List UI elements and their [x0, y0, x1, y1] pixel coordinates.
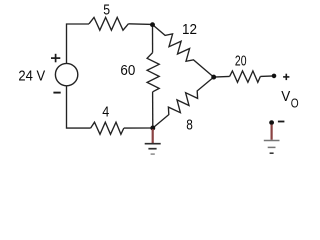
wire left rail bottom (source bottom to bottom-left corner)	[67, 86, 91, 128]
voltage source V1 circle	[55, 63, 77, 85]
svg-text:V: V	[281, 88, 291, 105]
ground right bar 3	[270, 152, 274, 154]
wire node A down to resistor 60	[152, 25, 154, 53]
ground left stem (maroon)	[152, 129, 154, 143]
svg-text:8: 8	[186, 118, 193, 134]
output plus sign	[283, 74, 289, 80]
output minus sign	[278, 121, 285, 123]
resistor 20	[230, 71, 261, 82]
wire node C to resistor 20	[214, 75, 230, 78]
resistor 8 (diagonal, node B to node C)	[153, 77, 214, 128]
wire top (resistor 5 to node A)	[128, 23, 152, 26]
resistor 60	[147, 53, 159, 92]
svg-text:O: O	[291, 96, 299, 111]
source minus sign	[53, 92, 60, 94]
ground right bar 2	[268, 146, 276, 148]
ground left bar 3	[151, 153, 155, 155]
svg-text:5: 5	[103, 3, 110, 19]
wire bottom (resistor 4 to node B)	[124, 127, 153, 129]
node C (middle-right junction)	[211, 75, 216, 80]
resistor 4	[91, 122, 124, 134]
resistor 12 (diagonal, node A to node C)	[153, 25, 214, 78]
svg-text:12: 12	[182, 22, 197, 38]
wire resistor 60 to node B	[152, 92, 154, 128]
ground right bar 1	[264, 140, 280, 142]
source plus sign	[51, 54, 60, 63]
node B (bottom junction)	[150, 126, 155, 131]
svg-text:20: 20	[235, 53, 247, 69]
ground left bar 2	[148, 148, 156, 150]
ground left bar 1	[145, 143, 161, 145]
output terminal + dot	[272, 74, 277, 79]
wire left rail top (source top to top-left corner)	[67, 24, 90, 63]
output terminal - dot	[269, 120, 274, 125]
svg-text:60: 60	[120, 63, 135, 79]
svg-text:24 V: 24 V	[18, 68, 45, 84]
ground right stem (maroon)	[271, 125, 273, 140]
svg-text:4: 4	[102, 104, 109, 120]
resistor 5	[89, 17, 128, 30]
node A (top junction)	[150, 22, 155, 27]
wire resistor 20 to output terminal	[260, 75, 274, 78]
